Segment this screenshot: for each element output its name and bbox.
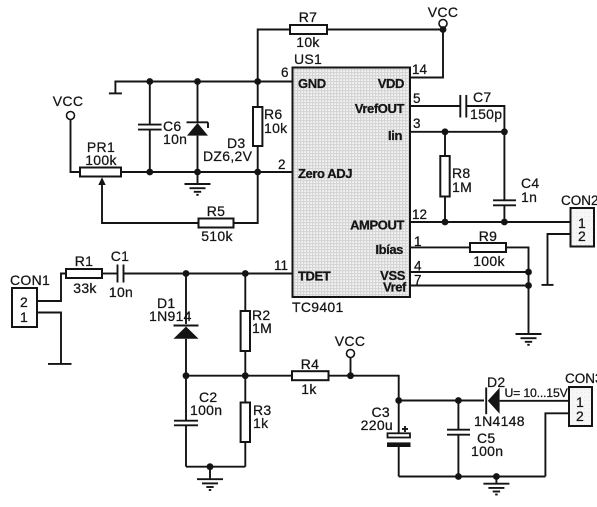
- svg-text:2: 2: [20, 294, 28, 310]
- svg-text:100k: 100k: [473, 253, 505, 269]
- svg-text:510k: 510k: [201, 228, 233, 244]
- resistor R3: [241, 376, 272, 467]
- svg-text:1k: 1k: [301, 381, 317, 397]
- wire R1 to C1: [102, 273, 117, 275]
- wire pin6 GND rail: [115, 82, 292, 94]
- IC pin name Iin: [388, 128, 402, 143]
- ground under C2/R3 rail: [197, 467, 223, 490]
- diode D1 1N914: [149, 274, 199, 376]
- IC pin name Zero ADJ: [298, 166, 352, 181]
- node junction R2 top: [242, 270, 249, 277]
- node junction R6 bottom / pin2 / R5: [254, 169, 261, 176]
- svg-text:10n: 10n: [109, 284, 133, 300]
- wire pin12 AMPOUT rail to CON2: [410, 221, 570, 223]
- svg-text:220u: 220u: [361, 417, 393, 433]
- node junction R8 bottom: [442, 219, 449, 226]
- connector CON1: [10, 272, 50, 327]
- svg-text:1k: 1k: [253, 415, 269, 431]
- potentiometer PR1: [80, 139, 121, 185]
- resistor R9: [470, 228, 506, 269]
- resistor R8: [440, 132, 472, 222]
- wire supply top rail to D2: [399, 400, 484, 402]
- capacitor C7: [460, 89, 502, 122]
- node junction C3 top: [395, 397, 402, 404]
- svg-text:GND: GND: [298, 76, 326, 91]
- node junction C6 bottom: [146, 169, 153, 176]
- diode D2 1N4148: [474, 374, 525, 429]
- svg-text:AMPOUT: AMPOUT: [350, 218, 404, 233]
- wire pin3 Iin rail: [410, 131, 504, 133]
- capacitor C6: [138, 82, 187, 173]
- node junction D3 bottom: [194, 169, 201, 176]
- resistor R5: [199, 203, 234, 244]
- IC pin name AMPOUT: [350, 218, 404, 233]
- svg-text:11: 11: [274, 258, 288, 273]
- svg-text:6: 6: [281, 65, 289, 80]
- IC pin name TDET: [298, 269, 331, 284]
- wire C7 right down to pin3 rail: [466, 106, 504, 132]
- node junction D1/C2: [183, 372, 190, 379]
- svg-text:R5: R5: [207, 203, 226, 219]
- svg-text:VCC: VCC: [428, 4, 458, 20]
- wire pin5 VrefOUT to C7: [410, 105, 460, 107]
- pin number 5: [413, 91, 421, 106]
- IC pin name VrefOUT: [355, 101, 405, 116]
- terminal bar at GND rail end: [109, 92, 122, 94]
- svg-text:12: 12: [412, 207, 427, 222]
- svg-text:C7: C7: [473, 89, 492, 105]
- svg-text:1N914: 1N914: [149, 308, 192, 324]
- node junction D1 top: [183, 270, 190, 277]
- resistor R2: [241, 274, 272, 376]
- IC pin name VDD: [378, 76, 404, 91]
- svg-text:5: 5: [413, 91, 421, 106]
- node junction C5 bottom: [455, 473, 462, 480]
- svg-text:CON2: CON2: [561, 193, 597, 208]
- node junction C4 top: [501, 128, 508, 135]
- VCC terminal top right: [428, 4, 458, 28]
- svg-text:100n: 100n: [190, 402, 222, 418]
- wire R5 right up to pin2 node: [234, 172, 258, 223]
- pin number 3: [413, 116, 421, 131]
- wire pin4 VSS: [410, 271, 529, 273]
- connector CON2: [561, 193, 597, 247]
- pin number 4: [414, 259, 422, 274]
- node junction pin7/R9: [525, 282, 532, 289]
- svg-text:CON1: CON1: [10, 272, 50, 288]
- pin number 2: [278, 157, 286, 172]
- svg-text:Ibías: Ibías: [375, 242, 403, 257]
- node junction pin4/R9: [525, 269, 532, 276]
- wire R4 right to C3 column: [329, 376, 399, 401]
- VCC terminal top left: [53, 93, 83, 120]
- svg-text:US1: US1: [294, 51, 322, 67]
- node junction ground bottom right: [493, 473, 500, 480]
- wire CON1 pin2 to R1: [37, 274, 66, 302]
- svg-text:VDD: VDD: [378, 76, 404, 91]
- svg-text:R7: R7: [299, 9, 318, 25]
- svg-text:R9: R9: [479, 228, 498, 244]
- svg-text:DZ6,2V: DZ6,2V: [203, 148, 253, 164]
- wire VCC to PR1: [71, 120, 81, 173]
- node junction R8 top: [442, 128, 449, 135]
- svg-text:150p: 150p: [470, 106, 502, 122]
- IC pin name GND: [298, 76, 326, 91]
- wire bottom right rail: [399, 476, 546, 478]
- IC part number label TC9401: [292, 299, 344, 315]
- svg-text:TDET: TDET: [298, 269, 331, 284]
- svg-text:3: 3: [413, 116, 421, 131]
- ground under D3: [185, 172, 211, 195]
- svg-text:VrefOUT: VrefOUT: [355, 101, 405, 116]
- svg-text:R4: R4: [301, 356, 320, 372]
- capacitor C1: [109, 248, 133, 300]
- IC US1 designator label: [294, 51, 322, 67]
- svg-text:1n: 1n: [521, 189, 537, 205]
- svg-text:VCC: VCC: [335, 333, 365, 349]
- wire CON3 pin2 down to ground rail: [545, 413, 569, 476]
- wire pin7 Vref: [410, 285, 529, 287]
- svg-text:Zero ADJ: Zero ADJ: [298, 166, 352, 181]
- terminal bar under CON1: [48, 363, 72, 365]
- wire bottom left rail: [186, 466, 245, 468]
- svg-text:U= 10...15V: U= 10...15V: [505, 386, 569, 400]
- svg-text:2: 2: [576, 408, 584, 424]
- resistor R4: [292, 356, 329, 397]
- IC US1 body: [293, 68, 411, 298]
- terminal bar under CON2 pin2: [542, 284, 554, 286]
- node junction VCC/R4: [347, 372, 354, 379]
- svg-text:10n: 10n: [163, 131, 187, 147]
- svg-text:1N4148: 1N4148: [474, 413, 525, 429]
- resistor R7: [290, 9, 327, 50]
- node junction C4 bottom: [501, 219, 508, 226]
- node junction VCC/R7/VDD: [440, 26, 447, 33]
- pin number 7: [414, 273, 422, 288]
- wire R7 left to pin6 rail: [258, 30, 290, 82]
- IC pin name VSS: [380, 268, 406, 283]
- VCC terminal above R4 wire: [335, 333, 365, 376]
- svg-text:33k: 33k: [73, 280, 97, 296]
- electrolytic capacitor C3: [361, 401, 411, 477]
- IC pin name Ibías: [375, 242, 403, 257]
- wire pin11 TDET rail: [124, 273, 293, 275]
- svg-text:10k: 10k: [296, 34, 320, 50]
- node junction C6 top: [146, 78, 153, 85]
- svg-text:VCC: VCC: [53, 93, 83, 109]
- ground under R9/VSS/Vref: [516, 334, 542, 345]
- zener diode D3 DZ6,2V: [187, 82, 253, 173]
- wire CON1 pin1 down: [37, 313, 61, 364]
- svg-text:100k: 100k: [85, 152, 117, 168]
- svg-text:2: 2: [278, 157, 286, 172]
- svg-text:Vref: Vref: [383, 280, 407, 295]
- ground under bottom right rail: [483, 477, 509, 495]
- node junction R2/R3: [242, 372, 249, 379]
- svg-text:Iin: Iin: [388, 128, 402, 143]
- connector CON3: [565, 371, 597, 426]
- node junction D3 top: [194, 78, 201, 85]
- capacitor C5: [447, 401, 503, 477]
- wire CON2 pin2 down to terminal: [548, 234, 571, 285]
- svg-text:10k: 10k: [264, 120, 288, 136]
- IC pin name Vref: [383, 280, 407, 295]
- node junction R7/R6 on rail: [254, 78, 261, 85]
- wire D2 to CON3: [500, 400, 569, 402]
- pin number 11: [274, 258, 288, 273]
- capacitor C4: [493, 132, 540, 222]
- wire VCC down to pin 14 VDD: [410, 30, 443, 78]
- svg-text:2: 2: [578, 228, 586, 244]
- svg-text:1M: 1M: [452, 179, 472, 195]
- pin number 14: [412, 62, 428, 77]
- pin number 12: [412, 207, 427, 222]
- svg-text:1: 1: [20, 309, 28, 325]
- node junction ground C2/R3: [207, 463, 214, 470]
- svg-text:14: 14: [412, 62, 428, 77]
- svg-text:1M: 1M: [252, 320, 272, 336]
- wire pin1 Ibias to R9: [410, 246, 470, 248]
- svg-text:100n: 100n: [471, 443, 503, 459]
- wire R7 right to VCC node: [327, 29, 443, 31]
- pin number 1: [414, 234, 422, 249]
- wire bottom mid rail to R4: [186, 375, 292, 377]
- wire pin2 Zero ADJ rail: [121, 171, 293, 173]
- resistor R1: [66, 253, 102, 296]
- svg-text:D2: D2: [487, 374, 506, 390]
- pin number 6: [281, 65, 289, 80]
- value label U= 10...15V: [505, 386, 569, 400]
- wire R5 left to PR1 wiper: [102, 185, 199, 224]
- svg-text:R1: R1: [75, 253, 94, 269]
- svg-text:C1: C1: [111, 248, 130, 264]
- svg-text:CON3: CON3: [565, 371, 597, 386]
- svg-text:TC9401: TC9401: [292, 299, 344, 315]
- wire R9 right down to ground: [506, 247, 529, 333]
- capacitor C2: [174, 376, 222, 467]
- node junction C5 top: [455, 397, 462, 404]
- resistor R6: [253, 82, 288, 173]
